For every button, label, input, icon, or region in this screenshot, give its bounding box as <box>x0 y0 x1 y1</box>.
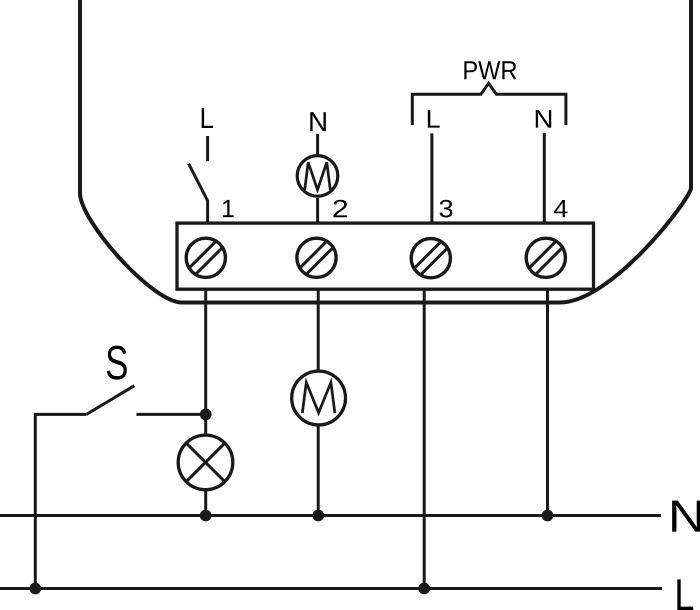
L bus <box>0 587 662 590</box>
label L above terminal 3 <box>428 110 440 127</box>
device enclosure outline <box>80 0 691 303</box>
motor M (top) circle <box>297 156 338 197</box>
wire 1 down from terminal 1 <box>204 289 207 434</box>
motor M (bottom) circle <box>292 371 346 425</box>
motor M (top) letter <box>305 162 331 190</box>
switch S right wire <box>136 413 205 416</box>
N bus <box>0 514 661 517</box>
terminal screw 1 <box>186 238 225 277</box>
label N above terminal 2 <box>310 112 326 131</box>
junction: switch wire / wire 1 <box>200 409 212 421</box>
lamp circle <box>178 435 233 490</box>
junction: wire 4 / N bus <box>542 510 554 522</box>
PWR label <box>464 61 516 79</box>
terminal screw 2 <box>297 238 336 277</box>
wire into terminal 4 <box>543 133 546 222</box>
junction: wire 3 / L bus <box>418 583 430 595</box>
wire 2 down from terminal 2 <box>317 289 320 370</box>
terminal number 4 <box>554 200 568 217</box>
wire blade to terminal 1 <box>206 200 209 222</box>
L bus label <box>677 579 693 610</box>
terminal screw 4 <box>526 238 565 277</box>
wire from N label to motor symbol <box>316 134 319 155</box>
label N above terminal 4 <box>536 110 551 127</box>
terminal screw 3 <box>411 239 450 278</box>
terminal number 2 <box>333 200 347 217</box>
wire into terminal 3 <box>430 133 433 222</box>
motor M (bottom) letter <box>302 382 335 413</box>
wire 3 down from terminal 3 to L bus <box>423 289 426 589</box>
N bus label <box>672 501 700 532</box>
junction: lamp / N bus <box>200 510 212 522</box>
wire 4 down from terminal 4 to N bus <box>546 289 549 516</box>
PWR bracket <box>412 83 566 125</box>
junction: S wire / L bus <box>29 583 41 595</box>
lamp X stroke 2 <box>186 443 225 482</box>
lamp X stroke 1 <box>186 443 225 482</box>
terminal number 3 <box>440 200 453 218</box>
switch S blade <box>86 386 134 415</box>
switch S left wire corner <box>35 414 86 588</box>
terminal number 1 <box>223 200 234 217</box>
switch blade above terminal 1 <box>189 164 208 201</box>
wire motor to terminal 2 <box>316 198 319 222</box>
wire motor bottom to N bus <box>317 426 320 516</box>
junction: motor bottom / N bus <box>312 510 324 522</box>
wire lamp to N bus <box>204 491 207 516</box>
switch S label <box>107 346 127 380</box>
terminal block <box>177 223 594 289</box>
switch contact above terminal 1 (fixed stub) <box>206 136 209 161</box>
label L above terminal 1 <box>202 108 213 128</box>
